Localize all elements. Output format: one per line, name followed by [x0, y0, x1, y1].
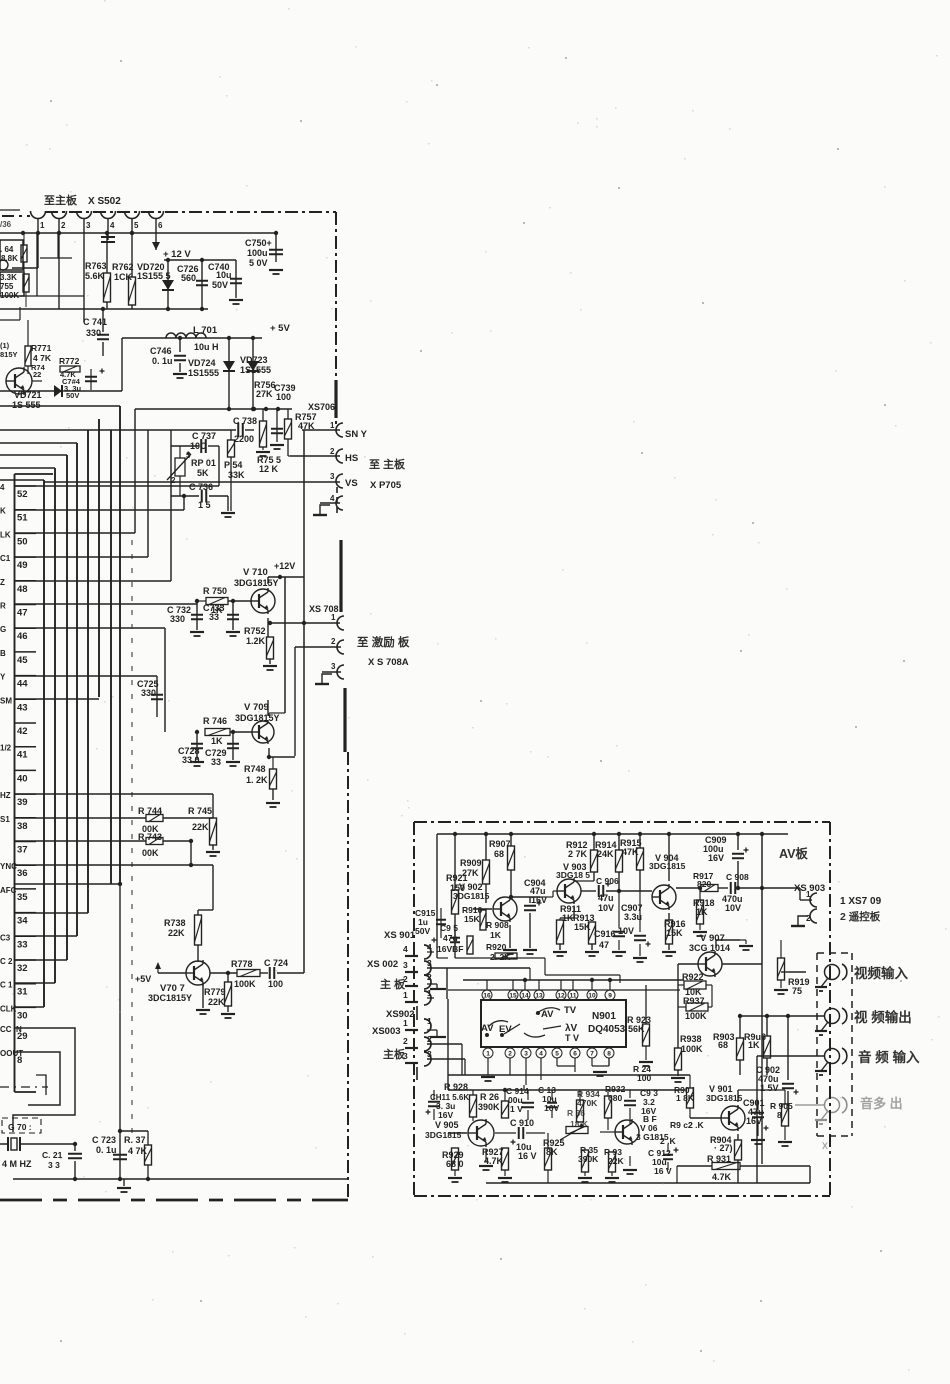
- svg-text:1: 1: [40, 221, 45, 230]
- svg-text:X S 708A: X S 708A: [368, 657, 409, 668]
- svg-text:3.3u: 3.3u: [624, 912, 642, 922]
- svg-text:6: 6: [158, 221, 163, 230]
- svg-text:2 遥控板: 2 遥控板: [840, 910, 881, 923]
- svg-text:68: 68: [718, 1040, 728, 1050]
- svg-text:390K: 390K: [578, 1154, 599, 1164]
- svg-text:R752: R752: [244, 626, 266, 636]
- svg-text:22K: 22K: [192, 822, 209, 832]
- svg-text:2: 2: [427, 972, 432, 982]
- svg-text:K: K: [0, 507, 6, 516]
- svg-text:15K: 15K: [464, 914, 480, 924]
- svg-text:330: 330: [141, 688, 156, 698]
- svg-text:22K: 22K: [608, 1156, 624, 1166]
- svg-text:SN Y: SN Y: [345, 429, 368, 440]
- svg-text:3DG1815Y: 3DG1815Y: [234, 578, 279, 588]
- svg-text:4: 4: [427, 942, 432, 952]
- svg-text:AV: AV: [481, 1023, 494, 1034]
- svg-text:40: 40: [17, 773, 28, 784]
- svg-text:44: 44: [17, 679, 28, 690]
- svg-text:至主板: 至主板: [44, 193, 78, 207]
- svg-text:R779: R779: [204, 987, 226, 997]
- svg-text:1CK: 1CK: [114, 272, 133, 282]
- svg-text:CC IN: CC IN: [0, 1025, 22, 1034]
- svg-text:22: 22: [33, 370, 41, 379]
- svg-text:C916: C916: [594, 929, 616, 939]
- svg-text:13: 13: [535, 993, 543, 1000]
- svg-text:100u: 100u: [247, 248, 268, 258]
- svg-text:1/2: 1/2: [0, 744, 12, 753]
- svg-text:2 .K: 2 .K: [688, 1120, 704, 1130]
- svg-text:0. 1u: 0. 1u: [152, 356, 173, 366]
- svg-text:8: 8: [777, 1110, 782, 1120]
- svg-text:AV板: AV板: [779, 846, 808, 861]
- svg-text:G 70 :: G 70 :: [8, 1122, 32, 1132]
- svg-text:4.7K: 4.7K: [484, 1156, 504, 1166]
- svg-text:RP 01: RP 01: [191, 458, 216, 468]
- svg-text:16 V: 16 V: [518, 1151, 537, 1161]
- svg-text:R 26: R 26: [480, 1092, 499, 1102]
- svg-text:XS 002: XS 002: [367, 959, 398, 970]
- svg-text:R778: R778: [231, 959, 253, 969]
- svg-text:9: 9: [608, 993, 612, 1000]
- svg-text:35: 35: [17, 892, 28, 903]
- svg-text:R 750: R 750: [203, 586, 227, 596]
- svg-text:3.3K: 3.3K: [0, 273, 17, 282]
- svg-text:S1: S1: [0, 815, 10, 824]
- svg-text:3 3: 3 3: [48, 1160, 60, 1170]
- svg-text:27K: 27K: [256, 389, 273, 399]
- svg-text:+5V: +5V: [135, 974, 151, 984]
- svg-text:V 709: V 709: [244, 702, 269, 713]
- svg-text:主 板: 主 板: [380, 977, 406, 991]
- svg-text:R 746: R 746: [203, 716, 227, 726]
- svg-text:1: 1: [806, 890, 811, 899]
- svg-text:1 V: 1 V: [510, 1104, 523, 1114]
- svg-text:2200: 2200: [234, 434, 254, 444]
- svg-text:C 2: C 2: [0, 957, 13, 966]
- svg-text:1: 1: [486, 1051, 490, 1058]
- svg-text:R909: R909: [460, 858, 482, 868]
- svg-text:C750+: C750+: [245, 238, 272, 248]
- svg-text:T V: T V: [565, 1033, 579, 1043]
- svg-text:22K: 22K: [168, 928, 185, 938]
- svg-text:470K: 470K: [577, 1098, 598, 1108]
- svg-text:VS: VS: [345, 478, 358, 489]
- svg-text:33: 33: [17, 939, 28, 950]
- svg-text:43: 43: [17, 702, 28, 713]
- svg-text:2 7K: 2 7K: [568, 849, 588, 859]
- svg-text:45: 45: [17, 655, 28, 666]
- svg-text:75: 75: [792, 986, 802, 996]
- svg-text:2: 2: [61, 221, 66, 230]
- svg-text:47: 47: [599, 940, 609, 950]
- svg-text:TV: TV: [564, 1005, 577, 1016]
- svg-text:1: 1: [427, 1016, 432, 1026]
- svg-text:33: 33: [209, 612, 219, 622]
- svg-text:6: 6: [573, 1051, 577, 1058]
- svg-text:R 743: R 743: [138, 832, 162, 842]
- svg-text:X S502: X S502: [88, 196, 121, 207]
- svg-text:HZ: HZ: [0, 791, 11, 800]
- svg-text:1S1555: 1S1555: [188, 368, 219, 378]
- svg-text:R763: R763: [85, 261, 107, 271]
- svg-text:8.8K: 8.8K: [1, 254, 18, 263]
- svg-text:至 主板: 至 主板: [369, 457, 406, 471]
- svg-text:4: 4: [403, 944, 408, 954]
- svg-text:3DG1815: 3DG1815: [706, 1093, 743, 1103]
- svg-text:. 64: . 64: [0, 245, 14, 254]
- svg-text:50V: 50V: [66, 391, 79, 400]
- svg-text:4 7K: 4 7K: [33, 353, 52, 363]
- svg-text:3DG18 5: 3DG18 5: [556, 870, 590, 880]
- svg-text:C 741: C 741: [83, 317, 107, 327]
- svg-text:2: 2: [403, 1036, 408, 1046]
- svg-text:P 54: P 54: [224, 460, 242, 470]
- svg-text:XS706: XS706: [308, 402, 335, 412]
- svg-text:4: 4: [330, 494, 335, 503]
- svg-text:R748: R748: [244, 764, 266, 774]
- svg-text:1K: 1K: [490, 930, 502, 940]
- svg-text:7: 7: [590, 1051, 594, 1058]
- svg-text:XS 901: XS 901: [384, 930, 416, 941]
- svg-text:Y: Y: [0, 673, 6, 682]
- svg-text:5.6K: 5.6K: [85, 271, 105, 281]
- svg-text:2: 2: [508, 1051, 512, 1058]
- svg-text:48: 48: [17, 584, 28, 595]
- svg-text:AV: AV: [541, 1009, 554, 1020]
- svg-text:32: 32: [17, 963, 28, 974]
- svg-text:1 5: 1 5: [198, 500, 211, 510]
- svg-text:37: 37: [17, 845, 28, 856]
- svg-text:C 738: C 738: [233, 416, 257, 426]
- svg-text:C. 21: C. 21: [42, 1150, 63, 1160]
- svg-text:47u: 47u: [598, 893, 614, 903]
- svg-text:3DC1815Y: 3DC1815Y: [148, 993, 192, 1003]
- svg-text:100K: 100K: [685, 1011, 707, 1021]
- svg-text:LK: LK: [0, 530, 11, 539]
- svg-text:10u: 10u: [216, 270, 232, 280]
- svg-text:3CG 1014: 3CG 1014: [689, 943, 730, 953]
- svg-text:X: X: [822, 1141, 828, 1151]
- svg-text:4: 4: [0, 483, 5, 492]
- svg-text:5K: 5K: [197, 468, 209, 478]
- svg-text:音 频 输入: 音 频 输入: [858, 1049, 920, 1065]
- svg-text:18 K: 18 K: [570, 1119, 589, 1129]
- svg-text:4: 4: [539, 1051, 543, 1058]
- svg-text:DQ4053: DQ4053: [588, 1024, 626, 1035]
- svg-text:R 745: R 745: [188, 806, 212, 816]
- svg-text:1 5V: 1 5V: [760, 1083, 779, 1093]
- svg-text:5: 5: [134, 221, 139, 230]
- svg-text:3: 3: [427, 1049, 432, 1059]
- svg-text:3DG1815: 3DG1815: [425, 1130, 462, 1140]
- svg-text:R938: R938: [680, 1034, 702, 1044]
- svg-text:50V: 50V: [415, 926, 430, 936]
- svg-text:R 908: R 908: [486, 920, 509, 930]
- svg-text:16V: 16V: [746, 1116, 762, 1126]
- svg-text:12: 12: [557, 993, 565, 1000]
- svg-text:1S 555: 1S 555: [12, 400, 41, 410]
- svg-text:680: 680: [608, 1093, 622, 1103]
- svg-text:16V: 16V: [438, 1110, 453, 1120]
- svg-text:8K: 8K: [546, 1147, 558, 1157]
- svg-text:R920: R920: [486, 942, 507, 952]
- svg-text:/36: /36: [0, 220, 12, 229]
- svg-text:3DG1815: 3DG1815: [453, 891, 490, 901]
- svg-text:52: 52: [17, 489, 28, 500]
- svg-text:R772: R772: [59, 356, 80, 366]
- svg-text:Z: Z: [0, 578, 5, 587]
- svg-text:C1: C1: [0, 554, 11, 563]
- svg-text:100K: 100K: [681, 1044, 703, 1054]
- svg-text:24K: 24K: [597, 849, 614, 859]
- svg-text:+12V: +12V: [274, 561, 295, 571]
- svg-text:16VBF: 16VBF: [437, 944, 463, 954]
- svg-text:XS902: XS902: [386, 1009, 415, 1020]
- svg-text:33: 33: [211, 757, 221, 767]
- svg-text:0. 1u: 0. 1u: [96, 1145, 117, 1155]
- svg-text:V 905: V 905: [435, 1120, 459, 1130]
- svg-text:OOUT: OOUT: [0, 1049, 23, 1058]
- svg-text:3: 3: [403, 960, 408, 970]
- svg-text:4 M HZ: 4 M HZ: [2, 1159, 32, 1169]
- svg-text:16: 16: [483, 993, 491, 1000]
- svg-text:1 XS7 09: 1 XS7 09: [840, 896, 882, 907]
- svg-text:1.2K: 1.2K: [246, 636, 266, 646]
- svg-text:2: 2: [331, 637, 336, 646]
- svg-text:C 723: C 723: [92, 1135, 116, 1145]
- svg-text:主板: 主板: [383, 1047, 406, 1061]
- svg-text:音多 出: 音多 出: [860, 1096, 903, 1111]
- svg-text:1. 2K: 1. 2K: [246, 775, 268, 785]
- svg-text:4.7K: 4.7K: [712, 1172, 732, 1182]
- svg-text:14: 14: [521, 993, 529, 1000]
- svg-text:G: G: [0, 625, 6, 634]
- svg-text:C 1: C 1: [0, 981, 13, 990]
- svg-text:(1): (1): [0, 341, 10, 350]
- svg-text:5: 5: [555, 1051, 559, 1058]
- svg-text:33K: 33K: [228, 470, 245, 480]
- svg-text:AFC: AFC: [0, 886, 17, 895]
- svg-text:1K: 1K: [748, 1040, 760, 1050]
- svg-text:560: 560: [181, 273, 196, 283]
- svg-text:10V: 10V: [598, 903, 614, 913]
- svg-text:16V: 16V: [708, 853, 724, 863]
- svg-text:视 频输出: 视 频输出: [854, 1009, 912, 1025]
- svg-text:815Y: 815Y: [0, 350, 18, 359]
- svg-text:5 0V: 5 0V: [249, 258, 268, 268]
- svg-text:10V: 10V: [725, 903, 741, 913]
- svg-text:R 744: R 744: [138, 806, 162, 816]
- svg-text:R 931: R 931: [707, 1154, 731, 1164]
- svg-text:22K: 22K: [208, 997, 225, 1007]
- svg-text:SM: SM: [0, 696, 12, 705]
- svg-text:755: 755: [0, 282, 14, 291]
- svg-text:15: 15: [509, 993, 517, 1000]
- svg-text:+ 5V: + 5V: [270, 323, 290, 334]
- svg-text:1S155 5: 1S155 5: [137, 271, 171, 281]
- svg-text:1K: 1K: [211, 736, 223, 746]
- svg-text:C 737: C 737: [192, 431, 216, 441]
- svg-text:R762: R762: [112, 262, 134, 272]
- svg-text:100K: 100K: [234, 979, 256, 989]
- svg-text:10u H: 10u H: [194, 342, 219, 352]
- svg-text:38: 38: [17, 821, 28, 832]
- svg-text:R907: R907: [489, 839, 511, 849]
- svg-text:3: 3: [427, 958, 432, 968]
- svg-text:68: 68: [494, 849, 504, 859]
- svg-text:39: 39: [17, 797, 28, 808]
- svg-text:46: 46: [17, 631, 28, 642]
- svg-text:3: 3: [524, 1051, 528, 1058]
- svg-text:YNC: YNC: [0, 862, 17, 871]
- svg-text:R: R: [0, 602, 6, 611]
- svg-text:4 7K: 4 7K: [128, 1146, 148, 1156]
- svg-text:2: 2: [427, 1034, 432, 1044]
- svg-text:47K: 47K: [622, 847, 639, 857]
- svg-text:1: 1: [331, 613, 336, 622]
- svg-text:2: 2: [330, 447, 335, 456]
- svg-text:3: 3: [86, 221, 91, 230]
- svg-text:C3: C3: [0, 933, 11, 942]
- svg-text:3: 3: [331, 662, 336, 671]
- svg-text:R. 37: R. 37: [124, 1135, 146, 1145]
- svg-text:3: 3: [330, 472, 335, 481]
- svg-text:51: 51: [17, 513, 28, 524]
- svg-text:33 0: 33 0: [182, 755, 200, 765]
- svg-text:42: 42: [17, 726, 28, 737]
- svg-text:1 8K: 1 8K: [676, 1093, 695, 1103]
- svg-text:B: B: [0, 649, 6, 658]
- svg-text:47: 47: [17, 608, 28, 619]
- svg-text:56K: 56K: [628, 1024, 645, 1034]
- svg-text:10: 10: [588, 993, 596, 1000]
- svg-text:49: 49: [17, 560, 28, 571]
- svg-text:1: 1: [330, 421, 335, 430]
- svg-text:15K: 15K: [666, 928, 683, 938]
- svg-text:C746: C746: [150, 346, 172, 356]
- svg-text:HS: HS: [345, 453, 358, 464]
- svg-text:V 710: V 710: [243, 567, 268, 578]
- svg-text:30: 30: [17, 1010, 28, 1021]
- svg-text:12 K: 12 K: [259, 464, 279, 474]
- svg-text:4: 4: [110, 221, 115, 230]
- svg-text:50: 50: [17, 536, 28, 547]
- svg-text:3DG1815Y: 3DG1815Y: [235, 713, 280, 723]
- svg-text:27K: 27K: [462, 868, 479, 878]
- svg-text:R922: R922: [682, 972, 704, 982]
- svg-text:XS003: XS003: [372, 1026, 401, 1037]
- svg-text:00K: 00K: [142, 848, 159, 858]
- svg-text:100: 100: [268, 979, 283, 989]
- svg-text:至 激励 板: 至 激励 板: [357, 635, 410, 649]
- svg-text:31: 31: [17, 987, 28, 998]
- svg-text:8: 8: [607, 1051, 611, 1058]
- svg-text:10C: 10C: [190, 441, 207, 451]
- svg-text:34: 34: [17, 916, 28, 927]
- svg-text:C 910: C 910: [510, 1118, 534, 1128]
- svg-text:1: 1: [403, 990, 408, 1000]
- svg-text:3DG1815: 3DG1815: [649, 861, 686, 871]
- svg-text:11: 11: [570, 993, 577, 1000]
- svg-text:视频输入: 视频输入: [854, 965, 908, 981]
- svg-text:36: 36: [17, 868, 28, 879]
- svg-text:C 906: C 906: [596, 876, 619, 886]
- svg-text:330: 330: [86, 328, 101, 338]
- svg-text:50V: 50V: [212, 280, 228, 290]
- svg-text:2: 2: [171, 476, 176, 485]
- svg-text:R771: R771: [31, 343, 52, 353]
- svg-text:330: 330: [170, 614, 185, 624]
- svg-text:68 0: 68 0: [446, 1159, 464, 1169]
- svg-text:10V: 10V: [618, 926, 634, 936]
- svg-text:· 27): · 27): [714, 1143, 733, 1153]
- svg-text:R 928: R 928: [444, 1082, 468, 1092]
- svg-text:X P705: X P705: [370, 480, 402, 491]
- svg-text:CLK: CLK: [0, 1004, 17, 1013]
- svg-text:100: 100: [276, 392, 291, 402]
- svg-text:N901: N901: [592, 1011, 616, 1022]
- svg-text:390K: 390K: [478, 1102, 500, 1112]
- svg-text:16 V: 16 V: [654, 1166, 672, 1176]
- svg-text:R937: R937: [683, 996, 705, 1006]
- svg-text:41: 41: [17, 750, 28, 761]
- svg-text:R738: R738: [164, 918, 186, 928]
- svg-text:C 724: C 724: [264, 958, 288, 968]
- svg-text:VD724: VD724: [188, 358, 216, 368]
